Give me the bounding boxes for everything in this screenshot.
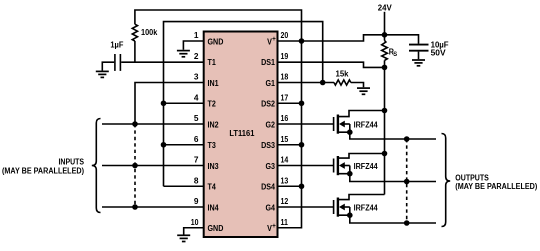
svg-text:15: 15 <box>281 134 289 144</box>
svg-text:11: 11 <box>281 217 289 227</box>
svg-text:5: 5 <box>194 113 199 123</box>
ground pin 1 <box>177 51 190 57</box>
node junction output bus line 1 <box>404 136 410 142</box>
wire V+ bus right of IC <box>277 41 302 228</box>
svg-text:GND: GND <box>208 223 224 233</box>
wire pin6 T3 stub <box>164 144 204 146</box>
wire pin7 IN3 <box>102 165 204 167</box>
resistor R3 RS <box>382 41 388 61</box>
svg-text:LT1161: LT1161 <box>229 128 254 138</box>
transistor Q1 body arrow <box>339 121 345 128</box>
svg-text:2: 2 <box>194 51 199 61</box>
wire pin8 T4 stub <box>164 185 204 187</box>
wire 15k to ground <box>351 83 364 88</box>
transistor Q3 body arrow <box>339 204 345 211</box>
brace inputs <box>92 119 101 213</box>
svg-text:10: 10 <box>191 217 199 227</box>
node junction Q1 source <box>347 129 353 135</box>
svg-text:3: 3 <box>194 72 199 82</box>
node junction 24V supply <box>382 32 388 38</box>
node junction Q3 source <box>347 212 353 218</box>
wire pin5 IN2 <box>102 123 204 125</box>
svg-text:G3: G3 <box>266 161 276 171</box>
svg-text:17: 17 <box>281 92 289 102</box>
node junction G1 to 15k <box>320 80 326 86</box>
svg-text:DS3: DS3 <box>261 140 275 150</box>
svg-text:G4: G4 <box>266 202 276 212</box>
brace outputs <box>442 134 451 227</box>
svg-text:+: + <box>272 221 276 230</box>
svg-text:IN2: IN2 <box>208 119 219 129</box>
svg-text:8: 8 <box>194 175 199 185</box>
wire pin4 T2 stub <box>164 102 204 104</box>
svg-text:S: S <box>393 51 397 58</box>
transistor Q2 body arrow <box>339 162 345 169</box>
wire 10uF to ground <box>418 52 420 60</box>
svg-text:6: 6 <box>194 134 199 144</box>
transistor Q2 IRFZ44 <box>334 154 436 182</box>
wire G1-to-timers line <box>164 22 323 187</box>
svg-text:IN3: IN3 <box>208 161 219 171</box>
node junction output bus line 2 <box>404 179 410 185</box>
wire 24V supply drop <box>384 12 386 41</box>
wire 24V node to 10uF cap <box>385 35 419 44</box>
resistor R1 100k <box>132 24 137 41</box>
svg-text:1µF: 1µF <box>110 39 123 49</box>
svg-text:13: 13 <box>281 175 289 185</box>
ground pin 10 <box>177 235 190 241</box>
wire dashed output-parallel bus <box>406 139 408 223</box>
op-amp U1 LT1161 IC body <box>204 32 278 238</box>
svg-text:GND: GND <box>208 36 224 46</box>
transistor Q3 IRFZ44 <box>334 195 436 224</box>
svg-text:1: 1 <box>194 30 199 40</box>
svg-text:DS2: DS2 <box>261 99 275 109</box>
node junction timer bus at pin 6 T3 <box>161 142 167 148</box>
svg-text:18: 18 <box>281 72 289 82</box>
wire pin18 G1 to 15k <box>277 82 334 84</box>
node junction V+ bus at pin 15 DS3 <box>299 142 305 148</box>
ground for 10uF <box>412 60 425 66</box>
svg-text:20: 20 <box>281 30 289 40</box>
wire pin17 DS2 stub <box>277 102 302 104</box>
wire pin19 DS1 to Rs bottom <box>277 62 385 67</box>
transistor Q1 IRFZ44 <box>334 111 436 140</box>
svg-text:14: 14 <box>281 155 289 165</box>
pin numbers right <box>281 30 289 227</box>
node junction input bus at pin 5 IN2 <box>132 121 138 127</box>
svg-text:9: 9 <box>194 196 199 206</box>
node junction input bus at pin 7 IN3 <box>132 163 138 169</box>
svg-text:7: 7 <box>194 155 199 165</box>
svg-text:15k: 15k <box>336 69 349 79</box>
svg-text:(MAY BE PARALLELED): (MAY BE PARALLELED) <box>455 181 537 191</box>
wire pin3 IN1 to input bus <box>135 83 204 125</box>
svg-text:IRFZ44: IRFZ44 <box>354 119 378 129</box>
wire pin1 stub to ground <box>183 41 203 50</box>
wire pin10 stub to ground <box>184 228 204 235</box>
node junction timer bus at pin 4 T2 <box>161 100 167 106</box>
svg-text:100k: 100k <box>141 27 157 37</box>
wire 100k bottom to T1 node <box>134 41 136 62</box>
wire pin15 DS3 stub <box>277 144 302 146</box>
capacitor C2 10uF plates <box>409 44 429 46</box>
svg-text:T3: T3 <box>208 140 216 150</box>
svg-text:50V: 50V <box>431 48 446 58</box>
svg-text:12: 12 <box>281 196 289 206</box>
svg-text:19: 19 <box>281 51 289 61</box>
wire top V+ line from 100k to bus <box>135 10 302 41</box>
svg-text:(MAY BE PARALLELED): (MAY BE PARALLELED) <box>2 165 84 175</box>
node junction output bus line 3 <box>404 220 410 226</box>
svg-text:G2: G2 <box>266 119 276 129</box>
svg-text:IRFZ44: IRFZ44 <box>354 161 378 171</box>
svg-text:DS1: DS1 <box>261 57 275 67</box>
pin numbers left <box>191 30 199 227</box>
svg-text:G1: G1 <box>266 78 276 88</box>
wire pin14 G3 gate lead <box>277 165 334 167</box>
svg-text:4: 4 <box>194 92 199 102</box>
svg-text:T1: T1 <box>208 57 216 67</box>
ground for 15k <box>357 88 370 94</box>
svg-text:IN4: IN4 <box>208 202 219 212</box>
wire T1 from cap to pin 2 <box>121 61 203 63</box>
IC right pin labels <box>261 36 275 233</box>
wire pin13 DS4 stub <box>277 185 302 187</box>
svg-text:T2: T2 <box>208 99 216 109</box>
capacitor C1 1uF left wire and ground lead <box>102 62 114 70</box>
wire dashed input-parallel bus <box>134 124 136 207</box>
wire pin12 G4 gate lead <box>277 206 334 208</box>
IC left pin labels <box>208 36 224 233</box>
svg-text:16: 16 <box>281 113 289 123</box>
wire Rs bottom to drain bus <box>384 60 386 194</box>
wire pin9 IN4 <box>102 206 204 208</box>
wire pin16 G2 gate lead <box>277 123 334 125</box>
node junction drain bus Q1 <box>382 108 388 114</box>
node junction drain bus Q2 <box>382 151 388 157</box>
capacitor C1 1uF plates <box>114 54 116 71</box>
node junction Q2 source <box>347 171 353 177</box>
node junction V+ bus at pin 17 DS2 <box>299 100 305 106</box>
node junction RS bottom / DS1 <box>382 65 388 71</box>
node junction V+ bus at pin 13 DS4 <box>299 183 305 189</box>
svg-text:T4: T4 <box>208 182 216 192</box>
node junction input bus at pin 9 IN4 <box>132 204 138 210</box>
svg-text:24V: 24V <box>378 2 392 12</box>
wire pin20 V+ to 24V node <box>277 35 385 41</box>
svg-text:DS4: DS4 <box>261 182 275 192</box>
resistor R2 15k <box>334 80 351 85</box>
svg-text:+: + <box>272 34 276 43</box>
node junction V+ bus at pin 20 <box>299 38 305 44</box>
svg-text:IN1: IN1 <box>208 78 219 88</box>
ground for C1 <box>96 71 109 77</box>
svg-text:IRFZ44: IRFZ44 <box>354 202 378 212</box>
